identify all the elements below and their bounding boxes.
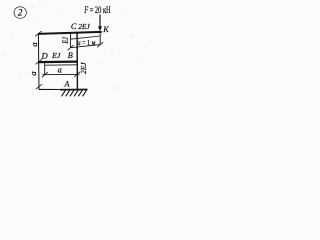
svg-text:a: a bbox=[29, 42, 39, 47]
svg-text:C: C bbox=[71, 22, 77, 31]
svg-text:F = 20 кН: F = 20 кН bbox=[83, 5, 111, 15]
svg-text:B: B bbox=[68, 51, 73, 60]
svg-text:K: K bbox=[102, 25, 109, 34]
svg-text:EJ: EJ bbox=[51, 51, 61, 60]
svg-text:D: D bbox=[41, 51, 49, 61]
svg-text:a: a bbox=[28, 71, 38, 76]
svg-text:2EJ: 2EJ bbox=[79, 62, 88, 74]
svg-text:2EJ: 2EJ bbox=[78, 22, 90, 31]
svg-text:2: 2 bbox=[18, 8, 23, 18]
svg-text:a = 1 м: a = 1 м bbox=[78, 39, 96, 47]
svg-text:EJ: EJ bbox=[61, 37, 70, 45]
svg-text:a: a bbox=[58, 66, 62, 75]
svg-text:A: A bbox=[63, 80, 70, 89]
